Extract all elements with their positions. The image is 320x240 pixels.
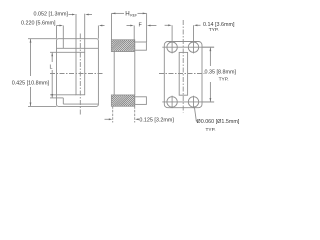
dim 0.125 right extension line (134, 106, 136, 122)
front view top step edge (62, 26, 64, 49)
arrowhead H left (112, 13, 116, 15)
bottom view bottom holes axis line (162, 101, 214, 103)
dim 0.425 top extension line (28, 38, 57, 40)
arrowhead F left (130, 25, 134, 27)
dim 0.052 left arrow tail (69, 14, 74, 16)
dim L top extension line (50, 51, 76, 53)
dim 0.35 bottom extension line (202, 101, 214, 103)
svg-text:TYP.: TYP. (209, 27, 219, 33)
svg-text:H: H (125, 11, 129, 18)
svg-text:L: L (50, 64, 53, 70)
dim F right arrow tail (150, 25, 157, 27)
dim 0.14 right arrow tail (197, 24, 201, 26)
bottom view top holes axis line (162, 46, 214, 48)
dim 0.125 left arrow tail (105, 118, 110, 120)
dim L dimension line lower part (51, 70, 53, 98)
dim 0.220 right arrow tail (101, 25, 105, 27)
bottom view hole tick BL (171, 96, 173, 108)
bottom view hole bottom-left (167, 97, 177, 107)
side view bottom pad hatch fill (112, 95, 135, 105)
bottom view vertical centerline (182, 20, 184, 113)
dim 0.052 extension line left (slot left) (75, 14, 77, 52)
svg-text:0.052 [1.3mm]: 0.052 [1.3mm] (34, 11, 69, 17)
dim L bottom extension line (slot bottom ext) (50, 94, 76, 96)
svg-text:TYP.: TYP. (219, 77, 229, 83)
bottom view hole tick TR (193, 41, 195, 53)
svg-text:Ø0.060 [Ø1.5mm]: Ø0.060 [Ø1.5mm] (197, 119, 240, 125)
bottom view hole top-right (188, 42, 198, 52)
bottom view hole tick BR (193, 96, 195, 108)
dim 0.35 dimension line lower part (209, 82, 211, 102)
svg-text:0.220 [5.6mm]: 0.220 [5.6mm] (21, 20, 56, 26)
front view bottom step edge (62, 98, 64, 104)
arrowhead 0.35 bottom (210, 98, 212, 102)
arrowhead H right (143, 13, 147, 15)
arrowhead 0.14 left (168, 24, 172, 26)
dim 0.052 right arrow tail (88, 14, 93, 16)
bottom view hole bottom-right (188, 97, 198, 107)
svg-text:0.14 [3.6mm]: 0.14 [3.6mm] (203, 22, 235, 28)
arrowhead F right (147, 25, 151, 27)
dim 0.35 top extension line (202, 46, 214, 48)
arrowhead 0.14 right (194, 24, 198, 26)
bottom view horizontal centerline (159, 73, 205, 75)
arrowhead 0.052 right (85, 14, 89, 16)
dim H dimension line left part (112, 12, 125, 14)
svg-text:0.35 [8.8mm]: 0.35 [8.8mm] (205, 69, 237, 75)
dim 0.220 left extension line (56, 26, 58, 39)
arrowhead 0.125 right (135, 118, 139, 120)
side view bottom pad outline (111, 95, 134, 106)
side view bottom tab (135, 97, 147, 105)
dim 0.052 extension line right (slot right) (84, 14, 86, 53)
front view inner top step line (57, 47, 99, 49)
front view inner bottom right ledge line (63, 103, 98, 105)
front view body outline (57, 39, 99, 107)
svg-text:0.125 [3.2mm]: 0.125 [3.2mm] (139, 117, 174, 123)
front view center conductor slot (76, 52, 85, 95)
front view horizontal centerline (50, 73, 104, 75)
dim H dimension line right part (138, 12, 147, 14)
arrowhead 0.052 left (72, 14, 76, 16)
svg-text:0.425 [10.8mm]: 0.425 [10.8mm] (12, 80, 50, 86)
dim 0.35 dimension line upper part (209, 47, 211, 66)
side view body strip right edge (134, 52, 136, 96)
front view vertical centerline (79, 34, 81, 116)
arrowhead L top (51, 53, 53, 57)
arrowhead 0.425 bottom (30, 103, 32, 107)
arrowhead 0.35 top (210, 48, 212, 52)
dim H left extension line (111, 13, 113, 39)
front view inner bottom left ledge line (50, 97, 63, 99)
dim 0.125 left extension line (112, 106, 114, 122)
bottom view center slot (179, 52, 187, 95)
leader line hole diameter (194, 106, 198, 121)
arrowhead 0.425 top (30, 39, 32, 43)
svg-text:REF: REF (130, 14, 137, 18)
dim 0.14 left extension line (171, 25, 173, 41)
arrowhead 0.125 left (109, 118, 113, 120)
svg-text:F: F (139, 23, 143, 29)
dim 0.220 left arrow tail (57, 25, 61, 27)
arrowhead L bottom (51, 94, 53, 98)
dim 0.425 dimension line upper part (30, 39, 32, 76)
bottom view hole top-left (167, 42, 177, 52)
dim 0.14 right extension line (193, 25, 195, 41)
dim L dimension line upper part (51, 52, 53, 62)
svg-text:TYP.: TYP. (206, 127, 216, 133)
arrowhead 0.220 left (60, 25, 64, 27)
dim 0.14 left arrow tail (165, 24, 169, 26)
dim F left arrow tail (127, 25, 132, 27)
bottom view hole tick TL (171, 41, 173, 53)
dim 0.425 dimension line lower part (30, 87, 32, 106)
dim 0.220 right extension (body right edge ext) (97, 26, 99, 39)
dim H right extension line (146, 13, 148, 42)
side view top pad outline (111, 40, 134, 52)
arrowhead 0.220 right (99, 25, 103, 27)
dim 0.425 bottom extension line (28, 105, 57, 107)
side view body strip left edge (113, 52, 115, 96)
dim F left extension line (133, 26, 135, 43)
dim 0.125 right arrow tail (138, 118, 140, 120)
bottom view outline (164, 42, 202, 108)
side view top tab (135, 42, 147, 50)
side view top pad hatch fill (112, 40, 135, 51)
